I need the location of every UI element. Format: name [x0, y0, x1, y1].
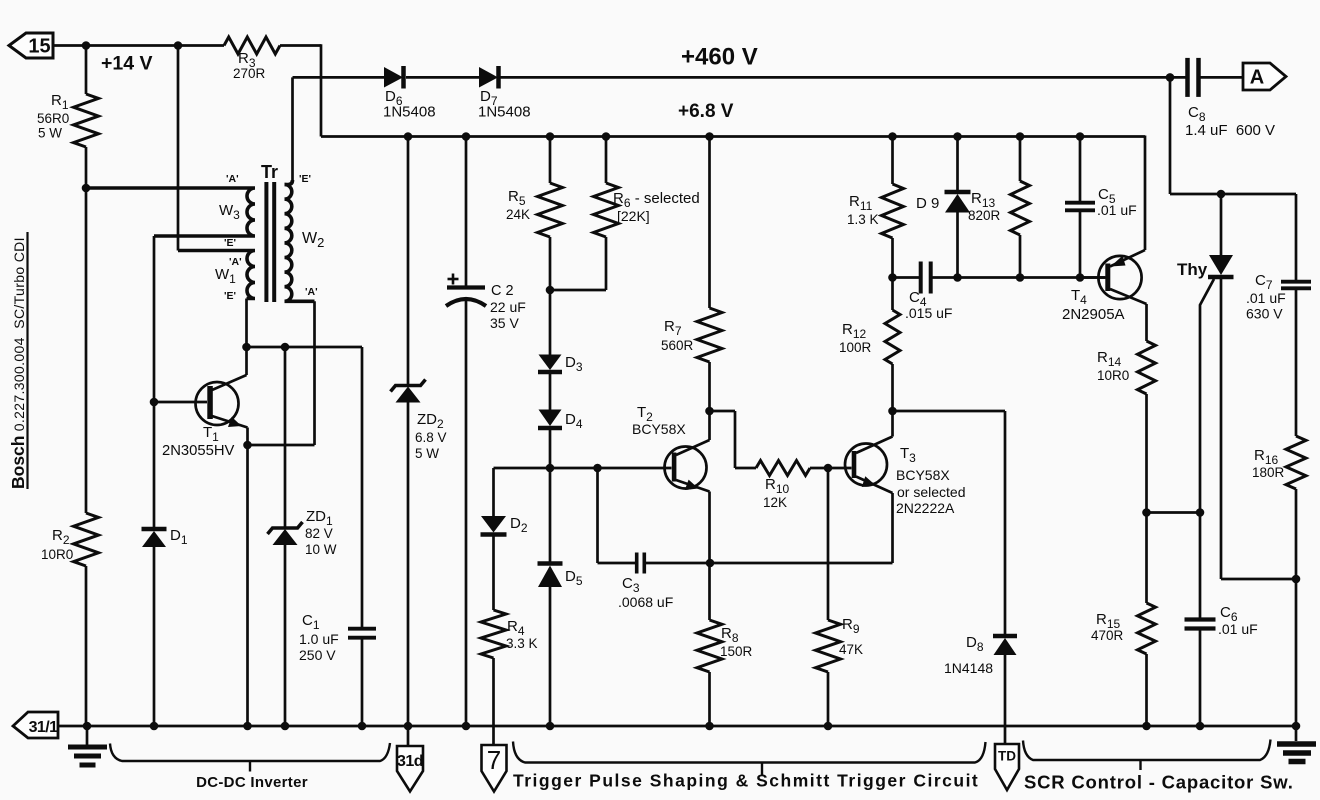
- svg-text:250 V: 250 V: [299, 647, 336, 663]
- wire ZD2 to tag 31d: [407, 726, 410, 746]
- terminal tag TD: [995, 744, 1019, 790]
- wire T4 collector down to R14: [1145, 304, 1148, 341]
- capacitor C7: [1295, 194, 1298, 280]
- svg-text:1N4148: 1N4148: [944, 660, 993, 676]
- svg-text:24K: 24K: [506, 207, 530, 222]
- wire R11 to junction: [891, 238, 894, 278]
- capacitor C5: [1079, 137, 1082, 202]
- node C2 top: [462, 132, 471, 141]
- node R16 bottom junction: [1292, 575, 1301, 584]
- resistor R3: [224, 37, 280, 54]
- winding W2: [285, 185, 315, 302]
- ground symbol right: [1295, 726, 1298, 741]
- diode D4: [539, 410, 562, 427]
- node R7 top: [705, 132, 714, 141]
- capacitor C2 electrolytic: [465, 137, 468, 288]
- zener diode ZD2: [407, 137, 410, 386]
- node junction R1 top: [82, 41, 91, 50]
- wire R3 to corner: [280, 44, 321, 47]
- svg-text:'A': 'A': [229, 256, 242, 268]
- svg-text:22 uF: 22 uF: [490, 299, 526, 315]
- node gnd R15: [1142, 722, 1151, 731]
- capacitor C8: [1185, 58, 1190, 97]
- svg-text:C 2: C 2: [491, 283, 514, 299]
- svg-text:.01 uF: .01 uF: [1218, 621, 1258, 637]
- resistor R14: [1138, 341, 1156, 394]
- svg-text:100R: 100R: [839, 340, 872, 355]
- diode D7: [479, 67, 498, 88]
- wire T2 collector to R10 drop: [710, 410, 736, 413]
- node +460 to thyristor branch: [1166, 73, 1175, 82]
- svg-text:'A': 'A': [305, 286, 318, 298]
- node C3 branch top: [593, 464, 602, 473]
- wire +460V rail: [293, 76, 385, 79]
- svg-text:56R0: 56R0: [37, 111, 69, 126]
- node gnd ZD2: [404, 722, 413, 731]
- transformer Tr core: [264, 182, 268, 302]
- resistor R7: [708, 137, 711, 309]
- wire R14-R15 to gate node: [1147, 511, 1201, 514]
- wire W3 A terminal: [86, 187, 250, 190]
- svg-text:35 V: 35 V: [490, 315, 519, 331]
- wire T4 base: [1083, 276, 1105, 279]
- svg-text:.01 uF: .01 uF: [1246, 290, 1286, 306]
- svg-text:560R: 560R: [661, 338, 694, 353]
- terminal tag 7: [482, 745, 507, 792]
- svg-text:DC-DC Inverter: DC-DC Inverter: [196, 774, 308, 791]
- wire R14 to junction: [1145, 394, 1148, 513]
- wire W2 E terminal up: [291, 77, 294, 180]
- transistor T2 BCY58X: [665, 447, 707, 489]
- brace SCR section: [1023, 740, 1271, 761]
- node gnd right end: [1292, 722, 1301, 731]
- resistor R1: [85, 46, 88, 95]
- node T2 collector junction: [705, 407, 714, 416]
- resistor R12: [891, 278, 894, 311]
- svg-text:3.3 K: 3.3 K: [506, 636, 538, 651]
- resistor R2: [74, 513, 99, 566]
- svg-text:470R: 470R: [1091, 628, 1124, 643]
- node thyristor anode junction: [1217, 190, 1226, 199]
- svg-text:.0068 uF: .0068 uF: [618, 594, 673, 610]
- diode D2: [492, 468, 495, 516]
- wire C3 branch down: [596, 468, 599, 563]
- node ZD1 top node: [281, 343, 290, 352]
- svg-text:1N5408: 1N5408: [478, 104, 531, 121]
- svg-text:82 V: 82 V: [305, 526, 333, 541]
- wire R2 to ground bus: [85, 566, 88, 726]
- transistor T1 2N3055HV: [196, 382, 239, 425]
- node C4-D9 junction: [953, 273, 962, 282]
- resistor R9: [827, 468, 830, 620]
- capacitor C6: [1199, 513, 1202, 618]
- svg-text:BCY58X: BCY58X: [632, 421, 686, 437]
- node gate-C6 junction: [1196, 508, 1205, 517]
- node D9 top: [953, 132, 962, 141]
- svg-text:+14 V: +14 V: [101, 53, 153, 75]
- node C5 bottom junction: [1076, 273, 1085, 282]
- node R13 bottom junction: [1016, 273, 1025, 282]
- wire W2-A down to T1 emitter wire: [313, 301, 316, 445]
- svg-text:Thy: Thy: [1177, 260, 1208, 279]
- wire corner down to +6.8V bus: [320, 44, 323, 136]
- svg-text:TD: TD: [998, 749, 1016, 764]
- svg-text:+460 V: +460 V: [681, 44, 758, 71]
- wire junction to R15: [1145, 513, 1148, 604]
- wire R15 to ground bus: [1145, 654, 1148, 726]
- svg-text:Tr: Tr: [261, 162, 278, 182]
- resistor R5: [549, 137, 552, 184]
- wire T1 base: [154, 401, 207, 404]
- wire C6 to ground bus: [1199, 631, 1202, 727]
- brace trigger section: [513, 742, 986, 763]
- svg-text:A: A: [1250, 67, 1264, 89]
- svg-text:[22K]: [22K]: [617, 208, 650, 224]
- node gnd R9: [824, 722, 833, 731]
- wire T2 base line: [494, 467, 672, 470]
- terminal tag 31/1: [13, 712, 58, 738]
- node R5 top: [546, 132, 555, 141]
- diode D6: [384, 67, 403, 88]
- wire Thy anode: [1220, 194, 1223, 255]
- resistor R6: [605, 137, 608, 184]
- thyristor gate wire: [1200, 279, 1214, 513]
- svg-text:1.4 uF 600 V: 1.4 uF 600 V: [1185, 122, 1275, 139]
- diode D3: [549, 290, 552, 355]
- svg-text:180R: 180R: [1252, 465, 1285, 480]
- node D3 chain base junction: [546, 464, 555, 473]
- node R14-R15 junction: [1142, 508, 1151, 517]
- svg-text:5 W: 5 W: [415, 446, 439, 461]
- node R1-W3A junction: [82, 184, 91, 193]
- capacitor C1: [361, 347, 364, 627]
- svg-text:'E': 'E': [224, 290, 236, 302]
- node junction W1-A feed: [174, 41, 183, 50]
- svg-text:+6.8 V: +6.8 V: [678, 101, 734, 122]
- svg-text:10R0: 10R0: [41, 547, 73, 562]
- wire to R10: [735, 467, 756, 470]
- diode D8: [1004, 411, 1007, 635]
- svg-text:'E': 'E': [299, 173, 311, 185]
- svg-text:1.0 uF: 1.0 uF: [299, 631, 339, 647]
- node gnd C1: [358, 722, 367, 731]
- label C2 plus: [448, 278, 459, 281]
- winding W1: [178, 251, 255, 299]
- node gnd C2: [462, 722, 471, 731]
- wire C7 to R16: [1295, 290, 1298, 436]
- wire +6.8V bus: [321, 135, 1145, 138]
- diode D1: [153, 402, 156, 529]
- ground symbol left: [86, 726, 89, 745]
- diode D5: [549, 468, 552, 562]
- node R11-C4-R12 junction: [888, 273, 897, 282]
- node gnd R8: [705, 722, 714, 731]
- svg-text:630 V: 630 V: [1246, 306, 1283, 322]
- wire R1 node down to R2: [85, 188, 88, 513]
- svg-text:6.8 V: 6.8 V: [415, 430, 447, 445]
- node gnd R2: [83, 722, 92, 731]
- svg-text:31/1: 31/1: [29, 719, 58, 736]
- node ZD2 top: [404, 132, 413, 141]
- svg-text:.01 uF: .01 uF: [1097, 202, 1137, 218]
- terminal tag A: [1243, 63, 1286, 90]
- svg-text:Trigger Pulse Shaping & Schmit: Trigger Pulse Shaping & Schmitt Trigger …: [513, 771, 979, 791]
- capacitor C4: [919, 262, 923, 294]
- resistor R10: [756, 461, 810, 476]
- svg-text:BCY58X: BCY58X: [896, 467, 950, 483]
- wire +14V rail from tag 15 to R3: [53, 44, 224, 47]
- winding W3: [86, 188, 255, 236]
- svg-text:10R0: 10R0: [1097, 368, 1129, 383]
- wire T1 collector rail: [247, 346, 363, 349]
- svg-text:D 9: D 9: [916, 195, 939, 212]
- node gnd T1e: [243, 722, 252, 731]
- node R9 top junction: [824, 464, 833, 473]
- label Bosch model vertical: [8, 237, 28, 489]
- node R6 top: [602, 132, 611, 141]
- node gnd D1: [150, 722, 159, 731]
- wire +460 node down: [1169, 77, 1172, 194]
- svg-text:5 W: 5 W: [38, 126, 62, 141]
- wire W1-E down to T1 collector node: [245, 299, 248, 348]
- wire T3 collector rail to D8: [893, 410, 1006, 413]
- node gnd ZD1: [281, 722, 290, 731]
- svg-text:'A': 'A': [226, 173, 239, 185]
- wire T4 base rail: [893, 276, 920, 279]
- node T1 collector node: [242, 343, 251, 352]
- resistor R16: [1286, 436, 1306, 489]
- svg-text:Bosch 0.227.300.004 SC/Turbo: Bosch 0.227.300.004 SC/Turbo CDI: [8, 237, 28, 489]
- diode D9: [956, 137, 959, 193]
- svg-text:1N5408: 1N5408: [383, 104, 436, 121]
- svg-text:10 W: 10 W: [305, 542, 337, 557]
- svg-text:31d: 31d: [397, 753, 423, 770]
- thyristor Thy: [1209, 255, 1233, 275]
- node R11 top: [888, 132, 897, 141]
- wire R6 link: [550, 289, 606, 292]
- wire node to ground bus end: [1295, 579, 1298, 726]
- node T3 collector junction: [888, 407, 897, 416]
- transistor T3 BCY58X: [845, 444, 887, 486]
- wire T1 emitter to ground: [246, 445, 249, 726]
- wire T1 emitter rail: [248, 444, 315, 447]
- svg-text:or selected: or selected: [897, 484, 965, 500]
- svg-text:12K: 12K: [763, 495, 787, 510]
- resistor R15: [1138, 603, 1156, 654]
- terminal tag 31d: [397, 746, 423, 792]
- wire ground bus: [58, 725, 1296, 728]
- wire horizontal to C7 column: [1170, 193, 1296, 196]
- svg-text:820R: 820R: [968, 208, 1001, 223]
- resistor R11: [891, 137, 894, 185]
- node R5-R6 junction: [546, 286, 555, 295]
- wire bus corner to T4 emitter: [1144, 136, 1147, 251]
- resistor R4: [481, 610, 506, 658]
- wire W1 A terminal: [178, 249, 250, 252]
- node R13 top: [1016, 132, 1025, 141]
- node T1 base junction: [150, 398, 159, 407]
- svg-text:SCR Control - Capacitor Sw.: SCR Control - Capacitor Sw.: [1024, 772, 1294, 793]
- zener diode ZD1: [284, 347, 287, 528]
- wire T3 emitter to C3 rail: [646, 562, 893, 565]
- resistor R8: [708, 563, 711, 620]
- wire R10 to T3 base: [810, 467, 852, 470]
- svg-text:270R: 270R: [233, 66, 266, 81]
- node C5 top: [1076, 132, 1085, 141]
- svg-text:47K: 47K: [839, 642, 863, 657]
- svg-text:2N3055HV: 2N3055HV: [162, 443, 235, 459]
- wire R4 to tag 7: [492, 658, 495, 745]
- resistor R13: [1019, 137, 1022, 182]
- capacitor C3: [635, 553, 639, 574]
- svg-text:2N2222A: 2N2222A: [896, 500, 955, 516]
- svg-text:150R: 150R: [720, 644, 753, 659]
- node R8-C3-T2e junction: [706, 559, 715, 568]
- svg-text:1.3 K: 1.3 K: [847, 212, 879, 227]
- wire +14V to W1-A vertical: [177, 46, 180, 251]
- svg-text:.015 uF: .015 uF: [905, 305, 952, 321]
- wire R16 to node: [1295, 489, 1298, 579]
- wire C8 to tag A: [1201, 76, 1244, 79]
- svg-text:2N2905A: 2N2905A: [1062, 306, 1125, 323]
- svg-text:7: 7: [487, 745, 501, 775]
- wire R5 to node: [549, 237, 552, 290]
- wire W3-E corner down to T1 base: [153, 236, 156, 402]
- wire Thy cathode to R16 node: [1221, 578, 1296, 581]
- brace DC-DC section: [110, 743, 390, 761]
- node gnd D5: [546, 722, 555, 731]
- transistor T4 2N2905A PNP: [1098, 256, 1141, 299]
- wire R1 bottom to node: [85, 147, 88, 188]
- svg-text:15: 15: [28, 36, 50, 58]
- wire R10 drop: [734, 411, 737, 468]
- wire Thy cathode down: [1220, 279, 1223, 579]
- svg-text:'E': 'E': [224, 237, 236, 249]
- node gnd C6: [1196, 722, 1205, 731]
- node T1 emitter node: [243, 441, 252, 450]
- terminal tag 15: [9, 33, 53, 58]
